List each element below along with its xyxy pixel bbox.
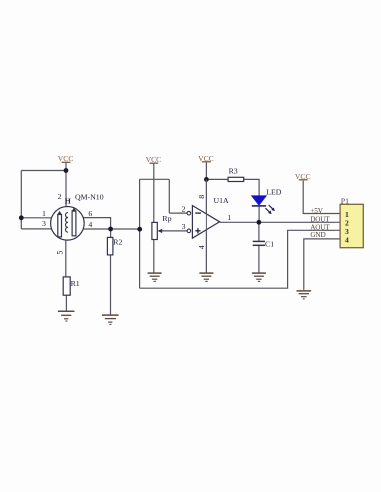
svg-text:4: 4 (345, 235, 349, 244)
svg-text:GND: GND (310, 231, 325, 239)
svg-text:R2: R2 (113, 238, 122, 247)
svg-text:4: 4 (197, 245, 206, 249)
svg-text:Rp: Rp (162, 214, 171, 223)
svg-text:1: 1 (42, 209, 46, 218)
svg-text:R1: R1 (71, 279, 80, 288)
svg-text:6: 6 (88, 209, 92, 218)
svg-text:2: 2 (58, 192, 62, 201)
svg-text:3: 3 (182, 222, 186, 231)
svg-text:VCC: VCC (58, 154, 74, 163)
svg-text:R3: R3 (229, 166, 238, 175)
svg-text:C1: C1 (265, 240, 274, 249)
svg-text:2: 2 (182, 205, 186, 214)
svg-text:8: 8 (197, 195, 206, 199)
svg-text:P1: P1 (341, 197, 349, 206)
svg-text:+5V: +5V (310, 207, 323, 215)
svg-text:VCC: VCC (295, 172, 311, 181)
svg-text:LED: LED (266, 187, 282, 196)
svg-text:3: 3 (42, 219, 46, 228)
svg-text:VCC: VCC (146, 155, 162, 164)
svg-text:QM-N10: QM-N10 (75, 192, 104, 201)
svg-text:1: 1 (227, 213, 231, 222)
svg-text:H: H (65, 196, 71, 205)
svg-text:5: 5 (56, 251, 65, 255)
svg-text:4: 4 (88, 220, 92, 229)
svg-text:U1A: U1A (214, 196, 230, 205)
svg-text:VCC: VCC (198, 154, 214, 163)
